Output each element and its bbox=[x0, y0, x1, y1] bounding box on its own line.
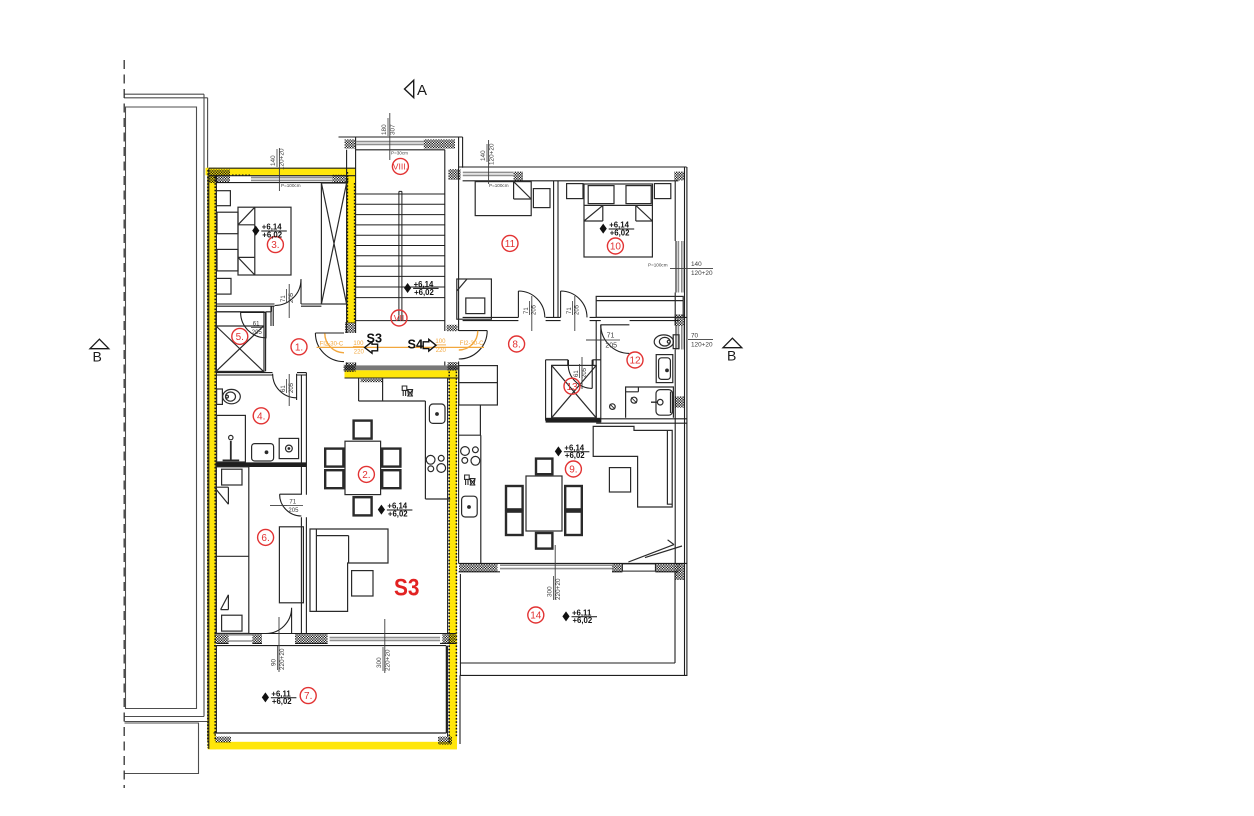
dim 180/307 stair rotated bbox=[381, 118, 396, 136]
room 2 kitchen counter outline bbox=[359, 378, 451, 499]
svg-text:300: 300 bbox=[376, 657, 383, 668]
room 12 toilet bbox=[673, 335, 679, 349]
window: stairwell top bbox=[356, 142, 424, 145]
svg-text:220: 220 bbox=[436, 348, 447, 354]
section marker A (triangle + letter) bbox=[405, 80, 428, 99]
room 6 beds double rect bbox=[216, 467, 249, 634]
wall: rooms 11/10 divider bbox=[554, 181, 558, 318]
svg-text:205: 205 bbox=[289, 292, 295, 303]
svg-text:205: 205 bbox=[252, 330, 263, 336]
room 9 coffee table bbox=[609, 468, 630, 492]
room 2 dining chairs bbox=[325, 421, 400, 516]
wall: room 13 left double wall bbox=[546, 360, 552, 421]
door room 10 (leaf + arc) bbox=[561, 291, 587, 317]
wall: rooms 11-10 / 8-12 horizontal wall bbox=[463, 317, 687, 320]
wall: room 3 / hall 1 wall bbox=[216, 304, 321, 306]
svg-text:5.: 5. bbox=[236, 332, 244, 343]
room 12 faucet circle bbox=[631, 397, 637, 403]
room 2 kitchen sink square bbox=[429, 404, 445, 423]
room label 9 bbox=[565, 461, 581, 477]
room 2 dishwasher icon bbox=[402, 386, 413, 396]
door S4 entry black leaf+arc bbox=[459, 331, 487, 359]
room label 2 bbox=[358, 466, 374, 482]
yellow highlight: S3 top wall bbox=[206, 168, 356, 176]
room 10 closet along wall bbox=[596, 296, 683, 317]
door room 3 (leaf + arc) bbox=[300, 279, 302, 304]
room label 13 bbox=[564, 378, 580, 394]
hatch: room 9 bottom wall blocks bbox=[459, 563, 498, 571]
room 3 bed fold triangles bbox=[238, 207, 255, 275]
room 13 bottom wall dark band bbox=[546, 418, 601, 423]
svg-text:P=100cm: P=100cm bbox=[281, 183, 301, 188]
svg-text:S3: S3 bbox=[367, 330, 383, 345]
svg-text:205: 205 bbox=[289, 382, 295, 393]
room 4 shower tray bbox=[217, 415, 246, 462]
elevation marker room 9 bbox=[555, 443, 590, 460]
svg-text:61: 61 bbox=[574, 370, 580, 377]
wall: S3 right wall inner edges bbox=[448, 370, 459, 736]
svg-text:9.: 9. bbox=[569, 465, 577, 476]
room label 12 bbox=[627, 352, 643, 368]
orange dimension line through S3/S4 doors bbox=[317, 346, 484, 348]
svg-text:205: 205 bbox=[532, 304, 538, 315]
room 6 wardrobe bbox=[279, 527, 303, 603]
svg-text:61: 61 bbox=[253, 321, 260, 327]
elevation marker terrace 7 bbox=[262, 689, 297, 706]
svg-text:B: B bbox=[93, 349, 102, 365]
svg-text:120+20: 120+20 bbox=[691, 270, 713, 277]
elevation marker stair hall bbox=[404, 280, 439, 297]
svg-text:4.: 4. bbox=[257, 411, 265, 422]
room 12 vanity counter bbox=[626, 387, 674, 418]
stairs treads bbox=[356, 194, 445, 298]
hatch: top-right corner block bbox=[674, 172, 684, 181]
svg-text:+6,02: +6,02 bbox=[565, 451, 585, 460]
wall: top-right apartment top wall bbox=[459, 167, 687, 181]
door dim 71/205 room 3 rotated bbox=[281, 289, 295, 303]
wall: stairwell right wall lines bbox=[445, 137, 463, 370]
room 10 nightstands bbox=[567, 184, 583, 199]
svg-text:B: B bbox=[727, 348, 736, 364]
door room 6 to terrace (leaf + arc) bbox=[266, 608, 292, 634]
dim 300/220+20 terrace 14 rotated bbox=[546, 576, 561, 600]
svg-text:71: 71 bbox=[607, 333, 615, 340]
room 3 pillows bbox=[217, 212, 238, 234]
hatch: stair right wall below S4 door bbox=[448, 362, 458, 371]
svg-text:220+20: 220+20 bbox=[384, 649, 391, 671]
wall: room 12 left wall bbox=[596, 321, 601, 423]
yellow highlight: S3 right wall bbox=[449, 370, 457, 749]
room 3 bed centre line bbox=[254, 225, 256, 258]
neighbour annex rectangle bottom-left bbox=[125, 723, 199, 774]
room label 8 bbox=[509, 336, 525, 352]
door room 11 (leaf + arc) bbox=[518, 291, 544, 317]
elevation marker room 2 bbox=[378, 502, 413, 519]
door 13 frame posts bbox=[567, 360, 569, 366]
hatch: stair right wall top block bbox=[448, 169, 460, 180]
room label 1 bbox=[291, 339, 307, 355]
wall: rooms 6-4 / 2 divider vertical bbox=[301, 373, 306, 634]
dim 140/120+20 room 10 right horizontal bbox=[670, 261, 713, 277]
stair bottom wall dark band bbox=[345, 365, 459, 370]
svg-text:140: 140 bbox=[270, 155, 277, 166]
dim 140/120+20 left rotated bbox=[270, 148, 285, 170]
svg-text:71: 71 bbox=[524, 307, 530, 314]
room 3 bed bbox=[238, 207, 291, 275]
wall: room 9 bottom wall lines bbox=[459, 563, 687, 571]
hatch: stair left wall below S3 door bbox=[346, 362, 356, 371]
door room 6 (leaf + arc) bbox=[280, 494, 302, 516]
neighbour building outer top double line bbox=[124, 94, 208, 98]
wall: rooms 4/6 divider wall (thick) bbox=[216, 463, 307, 466]
svg-text:140: 140 bbox=[691, 261, 702, 268]
dim 90/220+20 terrace 7 rotated bbox=[271, 646, 286, 670]
svg-text:205: 205 bbox=[605, 343, 617, 350]
hatch: stair right wall above S4 door bbox=[447, 325, 458, 331]
room label 6 bbox=[258, 529, 274, 545]
neighbour building right edge double line bbox=[204, 94, 208, 741]
svg-text:13: 13 bbox=[566, 382, 578, 393]
room 11 bed top bbox=[475, 182, 531, 216]
rooms 4/6 divider dark band bbox=[216, 463, 307, 466]
window: room 6 terrace threshold bbox=[229, 635, 253, 641]
svg-text:61: 61 bbox=[281, 385, 287, 392]
hatch: room 11 top wall block bbox=[514, 172, 523, 182]
room 3 wardrobe with X bbox=[321, 183, 346, 304]
svg-text:300: 300 bbox=[546, 586, 553, 597]
room label 10 bbox=[607, 238, 623, 254]
orange arc S4 door bbox=[459, 331, 478, 350]
wall: terrace 14 boundary bbox=[460, 572, 687, 744]
room 10 bed pillows bbox=[588, 186, 614, 204]
door room 4 (leaf + arc) bbox=[273, 374, 297, 400]
room 5 wardrobe with X bbox=[216, 312, 264, 372]
room 12 basin bbox=[656, 390, 673, 416]
room 4 washing machine bbox=[279, 438, 298, 458]
svg-text:A: A bbox=[417, 82, 427, 99]
hatch: stair left wall above S3 door bbox=[345, 322, 355, 333]
elevation marker room 3 bbox=[252, 223, 287, 240]
door dim 71/205 room 10 rotated bbox=[567, 301, 581, 315]
svg-text:P=100cm: P=100cm bbox=[489, 183, 509, 188]
svg-text:12: 12 bbox=[629, 356, 641, 367]
svg-text:6.: 6. bbox=[261, 533, 269, 544]
hatch: right wall block y314 bbox=[675, 314, 685, 325]
svg-text:+6,02: +6,02 bbox=[573, 616, 593, 625]
dim 300/220+20 terrace 7 rotated bbox=[376, 647, 391, 671]
svg-text:+6,02: +6,02 bbox=[272, 697, 292, 706]
svg-text:FI2-30-C: FI2-30-C bbox=[460, 341, 484, 347]
door room 13 (leaf + arc) bbox=[568, 365, 592, 389]
hatch: kitchen counter strip room 2 bbox=[361, 379, 382, 382]
room 13 shower with X bbox=[552, 365, 597, 417]
room 9 dining chairs bbox=[506, 459, 582, 549]
hatch: stair top wall right block bbox=[424, 139, 455, 148]
wall: stairwell left wall lines bbox=[347, 137, 356, 370]
svg-text:11: 11 bbox=[505, 239, 516, 250]
room 11 bed pillow bbox=[466, 298, 485, 314]
yellow highlight: S3 bottom wall bbox=[209, 742, 457, 750]
yellow highlight: stair bottom wall bbox=[345, 370, 458, 377]
room label 5 bbox=[232, 328, 248, 344]
door S3 entry black leaf+arc bbox=[315, 333, 344, 362]
dotted edge: top wall bottom bbox=[232, 174, 250, 176]
S3 flat entry label + arrow bbox=[365, 330, 382, 353]
svg-text:205: 205 bbox=[575, 304, 581, 315]
sliding door panel room 9 bottom bbox=[622, 564, 655, 571]
room 10 double bed bbox=[584, 184, 652, 257]
svg-text:2.: 2. bbox=[362, 470, 370, 481]
svg-text:14: 14 bbox=[530, 611, 542, 622]
hatch: S3 bottom wall left block bbox=[215, 737, 231, 743]
wall: right outer wall bbox=[675, 167, 687, 676]
svg-text:205: 205 bbox=[582, 367, 588, 378]
door dim 71/205 room 12 bbox=[604, 333, 620, 350]
svg-text:180: 180 bbox=[381, 124, 388, 135]
hatch: right wall block y396 bbox=[675, 396, 685, 407]
orange arc S3 door bbox=[325, 333, 344, 352]
door dim 71/205 room 11 rotated bbox=[524, 301, 538, 315]
yellow highlight: stair left wall bbox=[347, 170, 356, 323]
wall: stairwell bottom wall lower edge bbox=[345, 377, 459, 379]
hatch: stair top wall left block bbox=[345, 139, 356, 148]
room label 14 bbox=[528, 607, 544, 623]
hatch: stair bottom wall left block bbox=[344, 365, 354, 372]
door room 12 (leaf + arc) bbox=[601, 325, 630, 354]
svg-text:220: 220 bbox=[354, 350, 365, 356]
door room 3 arc bbox=[275, 279, 301, 305]
property dashed line bbox=[123, 60, 125, 788]
room 4 washbasin bbox=[252, 444, 274, 461]
room 9 kitchen cabinet bbox=[459, 366, 498, 405]
svg-text:3.: 3. bbox=[271, 240, 279, 251]
door dim 61/205 room 13 rotated bbox=[574, 364, 588, 378]
hatch: right wall block y563 bbox=[675, 563, 685, 580]
room 9 stove burners bbox=[461, 447, 470, 456]
svg-text:8.: 8. bbox=[512, 340, 520, 351]
svg-text:71: 71 bbox=[281, 295, 287, 302]
room 4 toilet bbox=[217, 389, 223, 404]
svg-text:7.: 7. bbox=[304, 691, 312, 702]
wall: rooms 5-4 / hall divider vertical bbox=[271, 306, 273, 326]
yellow highlight: S3 left wall bbox=[208, 168, 216, 750]
dim 140/120+20 room 11 rotated bbox=[480, 143, 495, 165]
room 2 stove burners bbox=[426, 455, 435, 464]
room 9 kitchen sink square bbox=[462, 496, 478, 517]
window: room 11 top bbox=[463, 172, 514, 175]
dim 70/120+20 room 12 right horizontal bbox=[688, 332, 713, 348]
window: terrace 7 wall bbox=[330, 638, 440, 641]
door room 5 (leaf + arc) bbox=[241, 312, 267, 337]
door dim 61/205 room 5 bbox=[251, 321, 264, 336]
stair label VII bbox=[391, 310, 407, 326]
window: room 12 right bbox=[678, 326, 681, 350]
S4 flat entry label + arrow bbox=[408, 336, 437, 351]
svg-text:+6,02: +6,02 bbox=[414, 288, 434, 297]
svg-text:S3: S3 bbox=[394, 575, 420, 602]
dotted edges: S3 left wall bbox=[208, 170, 456, 748]
wall: room 13 top wall bbox=[546, 360, 601, 366]
svg-text:71: 71 bbox=[289, 499, 296, 505]
svg-text:P=100cm: P=100cm bbox=[648, 262, 668, 267]
stairs centre stringer double line bbox=[399, 191, 402, 320]
svg-text:100: 100 bbox=[353, 341, 364, 347]
room 6 bed pillows bbox=[222, 469, 242, 485]
stairs landing edge bbox=[356, 320, 445, 322]
section marker B right bbox=[723, 338, 742, 363]
room label 11 bbox=[502, 235, 518, 251]
room 11 bed bottom-left bbox=[457, 279, 492, 319]
svg-text:70: 70 bbox=[691, 332, 699, 339]
room label 3 bbox=[267, 237, 283, 253]
door dim 61/205 room 4 rotated bbox=[281, 379, 295, 393]
svg-text:+6,02: +6,02 bbox=[262, 230, 282, 239]
svg-text:307: 307 bbox=[389, 124, 396, 135]
svg-text:FI2-30-C: FI2-30-C bbox=[320, 342, 344, 348]
room 11 nightstand bbox=[533, 189, 550, 208]
wall: stairwell top wall bbox=[339, 137, 463, 150]
room 6 bed fold triangles bbox=[214, 487, 228, 609]
room 2 dining table bbox=[345, 441, 381, 494]
wall: room 4 top wall bbox=[216, 373, 306, 375]
hatch: terrace 7 top wall blocks bbox=[214, 634, 228, 644]
section marker B left bbox=[90, 339, 109, 364]
hatch: S3 bottom wall right block bbox=[438, 737, 452, 745]
hatch: room3 top wall left corner bbox=[209, 170, 230, 183]
elevation marker terrace 14 bbox=[562, 608, 597, 625]
room 9 dining table bbox=[526, 476, 562, 531]
room 2 coffee table bbox=[352, 571, 373, 596]
wall: room 5 box walls bbox=[216, 306, 271, 371]
wall: terrace 7 top wall lines bbox=[216, 634, 456, 644]
svg-text:205: 205 bbox=[288, 508, 299, 514]
svg-text:10: 10 bbox=[610, 242, 622, 253]
room 9 sofa L-shape bbox=[593, 426, 672, 507]
svg-text:90: 90 bbox=[271, 658, 278, 666]
wall: terrace 7 interior top line bbox=[214, 645, 446, 647]
svg-text:71: 71 bbox=[567, 307, 573, 314]
wall: S3 left wall edge lines bbox=[209, 169, 217, 750]
room 2 sofa L-shape bbox=[310, 529, 388, 611]
svg-text:1.: 1. bbox=[295, 342, 303, 353]
door dim 71/205 room 6 bbox=[287, 499, 303, 514]
dotted edges: stair left wall upper bbox=[347, 172, 354, 322]
svg-text:P=30cm: P=30cm bbox=[391, 150, 408, 155]
svg-text:VII: VII bbox=[394, 313, 405, 323]
svg-text:120+20: 120+20 bbox=[691, 342, 713, 349]
svg-text:220+20: 220+20 bbox=[279, 648, 286, 670]
svg-text:100: 100 bbox=[435, 339, 446, 345]
wall: room 3 top wall lines bbox=[209, 168, 356, 182]
room 9 balcony open-door diagonals bbox=[628, 540, 682, 562]
room 3 nightstands bbox=[216, 191, 230, 206]
svg-text:+6,02: +6,02 bbox=[388, 509, 408, 518]
window: room 3 top bbox=[229, 142, 682, 641]
room 12 washbasin counter bbox=[656, 355, 673, 383]
room label 7 bbox=[300, 688, 316, 704]
wall: rooms 12/13 bottom wall (thick) bbox=[596, 419, 686, 423]
svg-text:140: 140 bbox=[480, 150, 487, 161]
room 9 dishwasher icon bbox=[465, 475, 476, 485]
neighbour building inner rectangle bbox=[126, 107, 197, 709]
neighbour building bottom double line bbox=[125, 717, 208, 722]
window: room 10 right bbox=[678, 241, 681, 293]
dotted edges: S3 right wall bbox=[449, 372, 456, 744]
stair label VIII bbox=[392, 158, 408, 174]
hatch: room3 top wall right of window bbox=[332, 175, 348, 183]
svg-text:220+20: 220+20 bbox=[555, 578, 562, 600]
window: room 9 bottom bbox=[500, 565, 612, 568]
svg-text:120+20: 120+20 bbox=[488, 143, 495, 165]
room 10 bed fold triangles bbox=[584, 205, 652, 221]
svg-text:+6,02: +6,02 bbox=[610, 228, 630, 237]
wall: terrace 7 floor bottom line bbox=[214, 646, 447, 733]
elevation marker room 10 bbox=[600, 221, 635, 238]
svg-text:VIII.: VIII. bbox=[393, 161, 408, 171]
room label 4 bbox=[253, 408, 269, 424]
svg-text:S4: S4 bbox=[408, 336, 424, 351]
